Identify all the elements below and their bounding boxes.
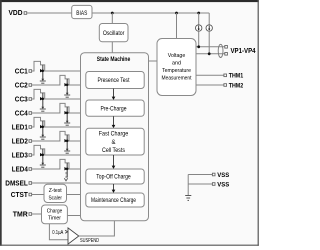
wire LED3 transistor to state machine — [43, 154, 81, 156]
wire rail to oscillator — [111, 13, 113, 24]
pin CC1 square — [29, 70, 32, 73]
arrow presence to precharge — [113, 89, 115, 98]
wire LED1 pin to transistor Q-LED1 — [32, 117, 45, 127]
svg-text:Voltage: Voltage — [168, 53, 186, 59]
frame left border — [0, 0, 2, 246]
svg-text:Top-Off Charge: Top-Off Charge — [96, 175, 131, 181]
svg-text:0.1µA: 0.1µA — [52, 230, 63, 236]
svg-text:Fast Charge: Fast Charge — [99, 132, 129, 138]
svg-text:CC2: CC2 — [15, 80, 28, 89]
wire VSS1 — [188, 174, 212, 176]
svg-text:Pre-Charge: Pre-Charge — [101, 106, 128, 112]
current source I2 — [206, 25, 212, 31]
arrow precharge to fastcharge — [113, 116, 115, 125]
wire charge timer to state machine — [67, 215, 80, 217]
wire BIAS to top-right rail — [92, 12, 209, 14]
pin CC3 square — [29, 98, 32, 101]
svg-text:DMSEL: DMSEL — [5, 180, 28, 187]
state maintenance charge — [86, 193, 144, 207]
ground symbol — [185, 195, 191, 197]
pin VP upper square — [225, 46, 228, 49]
z-test scaler block — [44, 184, 67, 202]
pin THM2 square — [224, 84, 227, 87]
current source I1 — [196, 25, 202, 31]
svg-text:VSS: VSS — [217, 181, 229, 188]
transistor Q-CC4 — [64, 107, 68, 122]
svg-text:THM2: THM2 — [229, 82, 244, 89]
svg-text:Measurement: Measurement — [162, 76, 192, 82]
wire VDD to BIAS — [27, 12, 72, 14]
wire I2 to VP bus — [208, 31, 210, 54]
wire Q-LED4 source dashed to DMSEL net — [65, 172, 67, 179]
wire CC3 transistor to state machine — [43, 98, 81, 100]
wire VT to THM2 — [196, 84, 224, 86]
wire VSS2 — [188, 183, 212, 185]
voltage and temperature measurement block — [157, 39, 196, 96]
svg-text:Oscillator: Oscillator — [103, 31, 125, 37]
wire LED4 transistor to state machine — [67, 168, 80, 170]
svg-text:Presence Test: Presence Test — [98, 78, 130, 84]
state machine outer block — [81, 53, 149, 221]
node rail-oscillator junction — [111, 12, 114, 15]
wire TMR to charge timer — [32, 213, 42, 215]
transistor Q-LED1 — [40, 121, 44, 136]
pin VDD square — [24, 12, 27, 15]
arrowhead 0.1uA input — [65, 230, 68, 233]
pin VSS2 square — [212, 183, 215, 186]
arrowhead into Z-test scaler — [64, 178, 67, 181]
comparator U-SUSPEND — [68, 228, 79, 244]
VP bundle ellipse — [218, 44, 223, 57]
svg-text:Maintenance Charge: Maintenance Charge — [91, 198, 137, 204]
wire CC3 pin to transistor Q-CC3 — [32, 89, 45, 99]
wire CC4 transistor to state machine — [67, 112, 80, 114]
wire oscillator to state machine — [111, 42, 113, 53]
wire CC1 pin to transistor Q-CC1 — [32, 61, 45, 71]
svg-text:LED2: LED2 — [12, 136, 28, 145]
wire LED3 pin to transistor Q-LED3 — [32, 145, 45, 155]
state fast charge and cell tests — [86, 128, 144, 155]
svg-text:&: & — [111, 140, 115, 146]
pin CTST square — [29, 193, 32, 196]
svg-text:State Machine: State Machine — [97, 56, 131, 63]
svg-text:SUSPEND: SUSPEND — [80, 238, 99, 244]
wire rail to voltage measurement block — [176, 13, 178, 39]
arrow topoff to maintenance — [113, 184, 115, 190]
wire LED1 transistor to state machine — [43, 126, 81, 128]
svg-text:TMR: TMR — [13, 211, 28, 218]
svg-text:CC3: CC3 — [15, 94, 28, 103]
state top-off charge — [86, 169, 144, 184]
state presence test — [86, 72, 144, 89]
svg-text:Timer: Timer — [48, 216, 61, 222]
transistor Q-CC1 — [40, 65, 44, 80]
ground of Q-CC1 — [41, 79, 44, 81]
svg-text:Charge: Charge — [47, 208, 63, 214]
frame right border — [257, 0, 259, 246]
charge timer block — [42, 205, 68, 224]
wire CC2 pin to transistor Q-CC2 — [32, 75, 70, 85]
transistor Q-CC3 — [40, 93, 44, 108]
svg-text:CC4: CC4 — [15, 108, 28, 117]
wire CC4 pin to transistor Q-CC4 — [32, 103, 70, 113]
pin VP lower square — [225, 53, 228, 56]
oscillator block — [99, 24, 128, 42]
svg-text:LED4: LED4 — [12, 164, 28, 173]
pin VSS1 square — [212, 173, 215, 176]
svg-text:CTST: CTST — [11, 192, 29, 199]
svg-text:Z-test: Z-test — [49, 188, 62, 194]
wire DMSEL to state machine — [32, 182, 81, 184]
wire CC2 transistor to state machine — [67, 84, 80, 86]
svg-text:LED1: LED1 — [12, 122, 28, 131]
ground of Q-CC2 — [66, 93, 69, 95]
node rail-VT junction — [175, 12, 178, 15]
pin THM1 square — [224, 74, 227, 77]
svg-text:and: and — [172, 61, 181, 67]
wire state machine to VT block — [149, 60, 158, 62]
pin LED1 square — [29, 126, 32, 129]
pin CC2 square — [29, 84, 32, 87]
svg-text:VDD: VDD — [9, 8, 23, 17]
ground of Q-LED1 — [41, 135, 44, 137]
pin TMR square — [29, 213, 32, 216]
pin DMSEL square — [29, 182, 32, 185]
svg-text:LED3: LED3 — [12, 150, 28, 159]
state pre-charge — [86, 100, 144, 116]
wire VP bus lower — [196, 53, 225, 55]
svg-text:Cell Tests: Cell Tests — [102, 148, 125, 154]
svg-text:Scaler: Scaler — [48, 196, 62, 202]
wire charge timer to comparator input — [49, 224, 68, 240]
frame top border — [0, 0, 259, 2]
ground of Q-LED3 — [41, 163, 44, 165]
svg-text:THM1: THM1 — [229, 73, 244, 80]
svg-text:BIAS: BIAS — [76, 11, 87, 17]
node I1-VP junction — [197, 45, 200, 48]
wire rail corner to current source I2 — [208, 13, 210, 25]
wire LED2 pin to transistor Q-LED2 — [32, 131, 70, 141]
wire comparator output SUSPEND — [79, 221, 115, 236]
wire CTST to scaler and state machine — [32, 194, 81, 196]
wire rail to current source I1 — [198, 13, 200, 25]
transistor Q-LED2 — [64, 135, 68, 150]
wire I1 to VP bus — [198, 31, 200, 47]
svg-text:CC1: CC1 — [15, 66, 28, 75]
bias U-BIAS block — [72, 5, 92, 18]
node I2-VP junction — [208, 52, 211, 55]
frame bottom border — [0, 244, 259, 246]
wire LED2 transistor to state machine — [67, 140, 80, 142]
svg-text:Temperature: Temperature — [162, 68, 192, 74]
ground of Q-LED2 — [66, 149, 69, 151]
node rail-current-source junction — [197, 12, 200, 15]
transistor Q-LED4 — [64, 163, 68, 178]
pin LED2 square — [29, 140, 32, 143]
ground of Q-CC3 — [41, 107, 44, 109]
wire VT to THM1 — [196, 74, 224, 76]
transistor Q-CC2 — [64, 79, 68, 94]
arrow fastcharge to topoff — [113, 155, 115, 166]
wire VSS down — [187, 175, 189, 196]
wire LED4 pin to transistor Q-LED4 — [32, 159, 70, 169]
wire CC1 transistor to state machine — [43, 70, 81, 72]
svg-text:VP1-VP4: VP1-VP4 — [231, 48, 256, 55]
svg-text:VSS: VSS — [217, 172, 229, 179]
pin LED4 square — [29, 168, 32, 171]
transistor Q-LED3 — [40, 149, 44, 164]
wire VP bus upper — [196, 46, 225, 48]
ground of Q-CC4 — [66, 121, 69, 123]
pin CC4 square — [29, 112, 32, 115]
pin LED3 square — [29, 154, 32, 157]
